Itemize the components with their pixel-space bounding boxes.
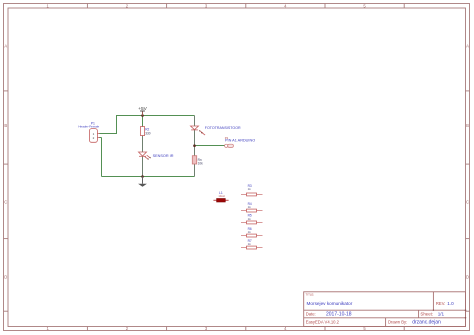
svg-text:10k: 10k: [198, 161, 204, 165]
svg-text:10uH: 10uH: [218, 194, 224, 198]
svg-text:PIN A1 ARDUINO: PIN A1 ARDUINO: [225, 138, 255, 142]
svg-text:Morsejev komunikator: Morsejev komunikator: [307, 301, 353, 306]
svg-text:B: B: [4, 123, 7, 128]
svg-text:D: D: [466, 275, 469, 280]
svg-text:+5V: +5V: [138, 106, 147, 112]
svg-text:Header-Female: Header-Female: [78, 124, 99, 128]
svg-text:B: B: [466, 123, 469, 128]
svg-text:1k: 1k: [248, 187, 252, 191]
svg-text:C: C: [4, 200, 7, 205]
svg-text:C: C: [466, 200, 469, 205]
svg-text:A: A: [4, 44, 7, 49]
svg-text:FOTOTRANSISTOOR: FOTOTRANSISTOOR: [205, 126, 241, 130]
svg-text:1k: 1k: [248, 205, 252, 209]
svg-text:1/1: 1/1: [438, 311, 445, 316]
svg-text:1k: 1k: [248, 230, 252, 234]
svg-text:D: D: [4, 275, 7, 280]
svg-text:1.0: 1.0: [447, 301, 454, 306]
svg-text:1k: 1k: [248, 217, 252, 221]
svg-text:REV.: REV.: [436, 301, 445, 306]
svg-text:Drawn By:: Drawn By:: [388, 320, 407, 325]
svg-text:SENSOR IR: SENSOR IR: [153, 154, 174, 158]
svg-text:Date:: Date:: [306, 311, 316, 316]
svg-text:EasyEDA V4.10.2: EasyEDA V4.10.2: [306, 320, 340, 325]
svg-text:2017-10-18: 2017-10-18: [326, 311, 352, 317]
svg-text:Sheet:: Sheet:: [420, 311, 433, 316]
svg-text:drzanc.dejan: drzanc.dejan: [412, 320, 441, 326]
svg-text:TITLE:: TITLE:: [306, 293, 315, 297]
svg-text:A: A: [466, 44, 469, 49]
svg-text:330: 330: [145, 131, 151, 135]
svg-text:1k: 1k: [248, 242, 252, 246]
